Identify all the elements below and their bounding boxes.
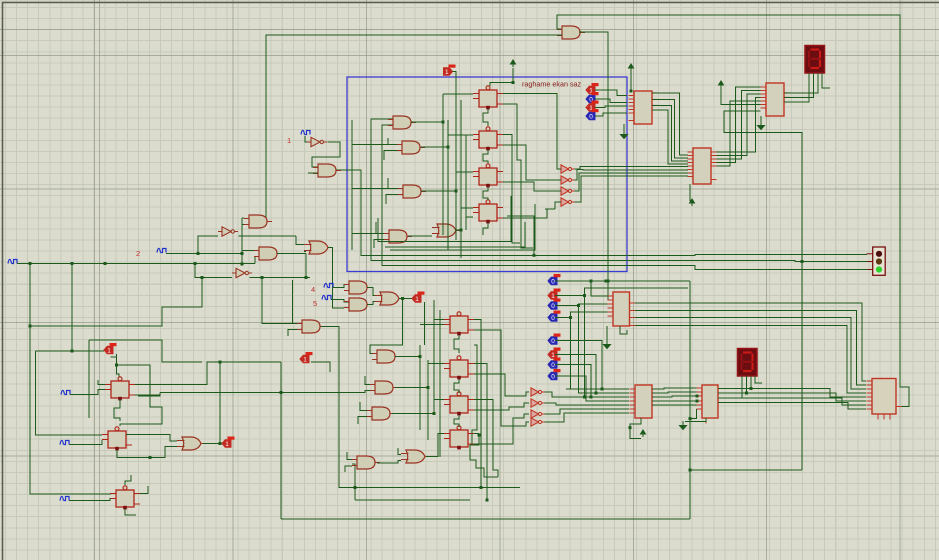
logicstate flag L0 value 1	[444, 65, 456, 77]
inverter U11C	[561, 187, 575, 195]
wire junction	[605, 280, 608, 283]
wire x35 down to FF6	[36, 351, 103, 435]
wire U25C out to U26	[545, 409, 630, 414]
wire FF1L-FF2L chain	[454, 335, 459, 353]
flip-flop FF6	[102, 427, 132, 451]
wire to AND U7 in1	[242, 217, 244, 219]
wire U9 pin to long vertical bus x802	[724, 111, 802, 470]
wire U25B out to U26	[545, 403, 630, 405]
wire U10 to power arrow P4	[689, 184, 691, 201]
wire junction	[71, 262, 74, 265]
AND gate U20 top	[557, 26, 585, 39]
input marker IN2	[157, 248, 166, 252]
wire IN1 to U5	[305, 136, 307, 142]
wire y281 to U13a pin	[591, 281, 609, 296]
wire junction	[241, 252, 244, 255]
svg-text:0: 0	[551, 303, 555, 310]
logicstate flag L15 value 0	[548, 369, 561, 380]
wire FF2 output to U11B	[503, 145, 545, 180]
wire junction	[512, 81, 515, 84]
wire FF4L out step	[470, 434, 479, 453]
wire ladder vertical v2	[447, 120, 449, 250]
wire x578 down to U26	[579, 306, 630, 394]
wire flag L11 net	[555, 317, 571, 319]
flip-flop FF1L	[444, 312, 474, 336]
wire U13a bottom stub	[620, 326, 627, 334]
wire FF3L-FF4L chain	[454, 415, 459, 427]
wire flag L15 to U26	[555, 376, 629, 401]
ground GND1 below U8	[621, 130, 628, 139]
wire FF7 clock stub	[125, 475, 131, 485]
AND gate U1B	[397, 141, 425, 154]
OR gate U24	[401, 450, 430, 463]
inverter U11B	[561, 176, 575, 184]
wire into U11B	[545, 179, 561, 181]
wire FF3 to FF4 clock chain	[483, 187, 488, 200]
logicstate flag L13 value 1	[548, 348, 561, 359]
wire IN8 to FF7	[69, 499, 111, 501]
wire lower ladder v1	[419, 345, 421, 430]
svg-text:raghame ekan saz: raghame ekan saz	[522, 80, 582, 89]
wire U13a out2 to U13	[635, 311, 866, 386]
wire into U25A	[512, 392, 529, 396]
flip-flop FF4	[473, 200, 503, 224]
ground GND2 below U9	[758, 121, 765, 130]
wire junction	[629, 426, 632, 429]
input marker IN1	[301, 130, 310, 134]
AND gate U4	[254, 247, 282, 260]
wire FF1 output right	[503, 94, 557, 141]
wire U13a to GND3	[606, 326, 608, 340]
wire U13a out1 to U13	[635, 303, 866, 381]
flip-flop FF3	[473, 164, 503, 188]
wire flag L1 to U8 pin	[595, 90, 627, 96]
AND gate U16	[344, 281, 372, 294]
IC U8 decoder	[629, 91, 658, 124]
wire ladder to FF4 input	[461, 207, 473, 209]
wire U18 output to flag L6	[399, 298, 412, 300]
wire junction	[460, 229, 463, 232]
wire stub U22 in2	[358, 417, 367, 425]
wire U27 bottom to GND4	[685, 418, 706, 422]
wire x30 down to FF7	[30, 264, 111, 495]
AND gate U1C	[398, 185, 426, 198]
wire U5 output to AND U6	[312, 142, 340, 167]
wire flag L14 down to U26	[555, 365, 591, 398]
wire FF7 out stub	[140, 486, 148, 494]
wire flag L3 to U8 pin	[595, 106, 627, 108]
wire U3 output to x242	[239, 235, 243, 237]
wire display D2 pin d stub	[755, 376, 762, 383]
wire junction	[194, 262, 197, 265]
wire U4 output east	[277, 253, 306, 255]
wire U1B input stub	[388, 138, 397, 145]
wire x584 down	[584, 296, 586, 398]
wire junction	[583, 396, 586, 399]
wire lower ladder v4	[439, 310, 441, 457]
wire U28 output east	[203, 443, 220, 445]
wire lower ladder v3	[433, 300, 435, 414]
IC U10 counter	[688, 148, 717, 184]
wire U1C input stub	[388, 178, 398, 189]
AND gate U17	[344, 298, 372, 311]
wire U26 bottom to power P5	[630, 418, 641, 439]
wire U1D input stub	[376, 222, 384, 234]
wire vertical x89 down	[88, 340, 90, 418]
wire junction	[419, 355, 422, 358]
wire into U25B	[516, 403, 529, 407]
wire long vertical x690	[689, 281, 691, 519]
wire IN6 to FF5	[70, 390, 105, 395]
logicstate flag L12 value 0	[548, 334, 561, 345]
wire junction	[433, 412, 436, 415]
wire junction U27 pin 2	[696, 400, 699, 403]
wire junction	[115, 364, 118, 367]
IC U13a counter	[608, 292, 636, 326]
wire U21 out to ladder	[395, 387, 428, 389]
wire power P2 to U8	[630, 71, 632, 91]
wire into U11D	[555, 202, 561, 209]
wire loop line L2 below gates	[385, 222, 525, 247]
wire vertical feeder x352 inside box	[351, 120, 353, 250]
wire loop line L1 below gates	[378, 196, 511, 242]
wire x352 to U1C input	[352, 188, 388, 190]
wire FF6 out to OR U28	[126, 435, 177, 442]
wire stub FF6	[96, 434, 102, 436]
svg-text:1: 1	[107, 347, 111, 354]
flip-flop FF7	[110, 486, 140, 510]
wire U12 output east	[250, 277, 311, 279]
wire junction	[486, 499, 489, 502]
logicstate flag L7 value 1	[300, 352, 313, 363]
input marker IN4	[324, 283, 333, 287]
input marker IN8	[60, 496, 69, 500]
wire U13a out4 to U13	[635, 326, 866, 394]
wire y264 to AND U4 input	[255, 257, 259, 264]
wire FF2 second output down	[503, 135, 520, 244]
OR gate U28	[177, 437, 206, 450]
power arrow P3	[719, 81, 724, 88]
power arrow P4	[690, 199, 695, 206]
inverter U25D	[531, 418, 545, 426]
wire junction	[201, 276, 204, 279]
wire stub U6 input 2	[308, 172, 318, 174]
ground GND4	[680, 421, 687, 430]
wire power P3 to U9 pin	[721, 88, 761, 104]
logicstate flag L1 value 1	[586, 83, 599, 94]
wire ladder to FF2 input	[448, 134, 473, 136]
wire U1C out to ladder	[421, 190, 456, 192]
wire U20 input feedback from bottom-right IC U13	[557, 15, 909, 407]
flip-flop FF3L	[444, 392, 474, 416]
svg-text:1: 1	[303, 356, 307, 363]
wire from power P1 to FF1 preset pin	[490, 68, 513, 86]
wire junction	[280, 391, 283, 394]
wire FF2L out down	[474, 364, 487, 501]
inverter U25A	[531, 388, 545, 396]
wire U26 to U27 a	[652, 388, 697, 389]
wire FF4 output to U11D	[503, 209, 547, 218]
wire U26 to U27 c	[652, 396, 697, 397]
wire ladder to FF4 input 2	[466, 217, 473, 230]
blue sub-circuit boundary box	[347, 77, 627, 272]
wire U4 output down	[305, 254, 307, 278]
wire below flag L6	[424, 302, 426, 345]
wire FF2L-FF3L chain	[454, 379, 459, 393]
wire junction	[590, 280, 593, 283]
wire y351 to flag L5	[36, 350, 105, 352]
input marker IN6	[61, 390, 70, 394]
wire junction	[480, 486, 483, 489]
wire from AND U7 output to U20 input	[266, 35, 562, 221]
wire vertical x281	[280, 362, 282, 519]
logicstate flag L14 value 0	[548, 358, 561, 369]
ground GND3 below U13a	[604, 340, 611, 349]
wire x72 down to y351	[71, 264, 73, 352]
logicstate flag L16 value 1	[222, 437, 235, 448]
wire junction	[197, 252, 200, 255]
svg-text:0: 0	[589, 113, 593, 120]
svg-text:0: 0	[551, 278, 555, 285]
wire lower ladder v2	[427, 360, 429, 440]
NOT gate U12	[232, 268, 252, 277]
OR gate U15	[304, 241, 333, 254]
wire ladder join U24 net	[439, 434, 441, 438]
wire flag L0 down into box	[453, 72, 457, 89]
wire U1B input stub 2	[384, 151, 397, 161]
inverter U11A	[561, 165, 575, 173]
svg-text:5: 5	[313, 299, 317, 308]
wire FF1L out2 to U25D	[474, 330, 524, 426]
wire x220 down to U28 output node	[219, 362, 221, 444]
logicstate flag L4 value 0	[586, 109, 599, 120]
wire cascade step y340	[89, 340, 202, 362]
wire U11B out bundle line 2	[575, 169, 689, 180]
power arrow P5	[641, 430, 646, 437]
flip-flop FF4L	[444, 426, 474, 450]
wire stub FF5 in1	[98, 380, 105, 385]
input marker IN3	[8, 259, 17, 263]
wire U18 out down to AND U19	[370, 299, 403, 354]
flip-flop FF5	[105, 377, 135, 401]
power arrow P1	[511, 60, 516, 67]
wire stub U14 in2	[288, 330, 297, 337]
wire FF3L out down	[474, 400, 498, 478]
wire FF4 clock down	[483, 223, 488, 235]
wire FF1L out down	[474, 320, 481, 488]
wire display D1 pin d stub	[822, 73, 830, 88]
AND gate U23	[352, 456, 380, 469]
svg-text:1: 1	[287, 136, 291, 145]
wire net amber lamp	[371, 119, 867, 262]
NOT gate U5	[307, 137, 327, 146]
wire FF1 second output down	[503, 104, 533, 248]
power arrow P2	[629, 64, 634, 71]
wire U9 pin to GND2	[760, 116, 762, 121]
wire junction	[29, 325, 32, 328]
wire from flag L7	[311, 362, 330, 372]
wire junction	[577, 304, 580, 307]
wire junction	[750, 387, 753, 390]
wire to AND U14 in1	[262, 278, 297, 324]
wire stub U7 in2	[242, 224, 244, 226]
wire ladder to FF3 input	[456, 171, 473, 173]
wire to OR U15 in1	[296, 236, 304, 245]
wire FF1 to FF2 clock chain	[483, 109, 488, 126]
wire FF6 bottom to U28 in2	[117, 447, 177, 458]
wire U20 output down to node row	[579, 32, 608, 281]
wire junction	[219, 361, 222, 364]
wire U23 out to OR U24	[377, 461, 401, 464]
wire junction	[569, 316, 572, 319]
wire stub U23 in2	[345, 466, 352, 472]
wire U1B out to ladder	[421, 146, 448, 148]
wire U10 out2 up to U9	[717, 94, 761, 156]
OR gate U18	[375, 292, 404, 305]
svg-text:1: 1	[445, 69, 449, 76]
wire display D1 pin b to U9	[784, 73, 814, 97]
wire U25A out to U26	[545, 392, 630, 397]
wire junction	[29, 262, 32, 265]
wire FF2 to FF3 clock chain	[483, 150, 488, 163]
wire U1D out to OR U2A	[408, 235, 432, 237]
wire FF5 out to x281 net	[135, 362, 281, 385]
logicstate flag L6 value 1	[412, 292, 425, 303]
wire U19 out to ladder	[395, 356, 420, 358]
logicstate flag L5 value 1	[104, 343, 117, 354]
wire U10 out5 up to U9	[717, 101, 761, 166]
inverter U11D	[561, 198, 575, 206]
logicstate flag L9 value 1	[548, 289, 561, 300]
wire into U11A from above	[557, 140, 561, 169]
wire display D2 pin c	[718, 376, 751, 389]
wire long y392 into U21	[160, 391, 370, 393]
wire junction	[71, 350, 74, 353]
inverter U25C	[531, 410, 545, 418]
wire x352 to U1B input	[352, 144, 388, 146]
svg-text:0: 0	[551, 362, 555, 369]
wire U16 out to OR U18	[367, 288, 375, 296]
wire U1A out to ladder	[411, 121, 443, 123]
svg-text:2: 2	[136, 249, 140, 258]
AND gate U1A	[388, 116, 416, 129]
wire ladder vertical v1	[442, 94, 444, 235]
wire IN5 to AND U17	[331, 300, 349, 303]
wire ladder vertical v4	[460, 100, 462, 258]
wire FF4L out2 to U25C	[474, 418, 520, 444]
AND gate U19	[372, 350, 400, 363]
wire U11C out bundle line 3	[575, 173, 689, 191]
wire U1D input stub 2	[374, 240, 384, 249]
wire junction	[427, 386, 430, 389]
svg-text:0: 0	[551, 338, 555, 345]
wire U3 out east	[239, 235, 297, 237]
wire IN3 long net y264	[17, 263, 255, 265]
wire FF2L out2 to inverter U25A	[474, 374, 512, 396]
wire U8 out D to U10	[652, 110, 688, 164]
flip-flop FF2	[473, 127, 503, 151]
wire flag L2 to U8 pin	[595, 99, 627, 103]
wire long horizontal y519	[281, 518, 690, 520]
wire FF3L out2 to U25B	[474, 407, 516, 410]
wire U14 output long down y487	[321, 327, 520, 488]
wire junction	[533, 254, 536, 257]
wire ladder vertical v5	[465, 135, 467, 230]
wire junction x479	[478, 434, 481, 437]
wire flag L13 down to U26	[555, 355, 596, 394]
wire vertical x242	[241, 218, 243, 264]
wire U1C input stub 2	[386, 195, 398, 205]
svg-text:1: 1	[415, 296, 419, 303]
wire stub U23 in1	[347, 452, 352, 460]
IC U13 bottom-right	[867, 379, 902, 420]
wire junction	[442, 121, 445, 124]
wire x352 to U1D input	[352, 233, 376, 235]
OR gate U2A	[432, 224, 461, 237]
wire IN4 to AND U16	[333, 285, 349, 288]
wire stub U21 in1	[365, 376, 370, 385]
wire U24 out to FF8 input	[426, 434, 444, 457]
wire junction x150	[149, 456, 152, 459]
wire y392 west end to FF5	[138, 393, 160, 397]
wire net green lamp	[382, 125, 867, 270]
wire display D1 pin a to U9	[784, 73, 809, 102]
wire junction	[745, 392, 748, 395]
wire y500 up to AND U23 input	[352, 464, 355, 500]
wire junction	[607, 280, 610, 283]
traffic light TL1	[867, 247, 886, 275]
NOT gate U3	[218, 227, 238, 236]
wire junction	[455, 190, 458, 193]
logicstate flag L8 value 0	[548, 274, 561, 285]
wire IN2 net	[166, 253, 242, 255]
wire junction	[590, 396, 593, 399]
wire to NOT U3	[198, 236, 218, 254]
wire stub U22 in1	[360, 402, 367, 411]
wire U1A input stub	[371, 118, 388, 120]
wire junction U27 pin	[696, 395, 699, 398]
input marker IN7	[60, 440, 69, 444]
wire vertical x292	[292, 280, 294, 324]
wire display D1 pin c to U9	[784, 73, 818, 93]
inverter U25B	[531, 399, 545, 407]
svg-text:0: 0	[551, 373, 555, 380]
wire junction	[401, 297, 404, 300]
AND gate U22	[367, 407, 395, 420]
wire U8 out C to U10	[652, 105, 688, 161]
wire row 389 west stub	[566, 388, 571, 390]
wire IN7 to FF6	[69, 440, 102, 445]
logicstate flag L10 value 0	[548, 299, 561, 310]
wire x242 to U4 in1	[242, 250, 254, 252]
flip-flop FF2L	[444, 356, 474, 380]
IC U27 driver	[697, 385, 724, 424]
wire display D2 pin b	[718, 376, 747, 393]
wire ladder to FF7L in	[434, 399, 444, 401]
wire U2A out to ladder	[455, 229, 461, 231]
wire ladder to FF1 input	[443, 93, 473, 95]
AND gate U7	[244, 215, 272, 228]
wire into U25C	[520, 414, 529, 418]
wire U10 out4 up to U9	[717, 87, 761, 163]
wire U10 out1 up to U9	[717, 98, 761, 153]
wire junction	[261, 276, 264, 279]
wire junction	[219, 442, 222, 445]
IC U9 display decoder	[761, 83, 790, 116]
wire flag L12 down to U26	[555, 341, 602, 390]
wire FF5 bottom chain	[114, 399, 120, 421]
wire flag L5 down to FF5 clock	[117, 354, 120, 377]
